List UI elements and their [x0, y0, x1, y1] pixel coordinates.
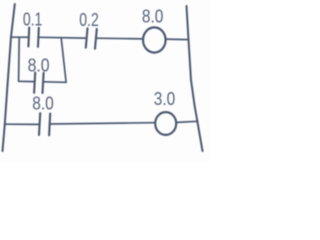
right power rail — [187, 6, 203, 151]
coil 8.0 (rung 1 output) — [143, 27, 166, 52]
wire rung1 rail to contact 0.1 — [11, 36, 28, 38]
branch wire contact 8.0 to right connector — [44, 81, 66, 84]
svg-text:0.2: 0.2 — [79, 10, 99, 30]
contact 8.0 (rung 2) — [39, 113, 50, 135]
parallel contact 8.0 — [34, 73, 44, 94]
wire contact 0.2 to coil 8.0 — [97, 37, 142, 40]
branch right vertical connector — [61, 38, 66, 82]
svg-text:8.0: 8.0 — [28, 56, 50, 76]
coil 3.0 (rung 2 output) — [155, 112, 176, 135]
wire coil 8.0 to right rail — [166, 38, 188, 41]
contact 0.1 — [28, 28, 38, 47]
branch left vertical connector — [18, 37, 21, 81]
wire coil 3.0 to right rail — [177, 121, 198, 122]
left power rail — [3, 4, 15, 151]
svg-text:8.0: 8.0 — [142, 7, 164, 27]
wire contact 8.0 to coil 3.0 — [51, 123, 155, 124]
branch wire left to contact 8.0 — [19, 80, 34, 82]
svg-text:3.0: 3.0 — [154, 89, 176, 109]
wire rung2 rail to contact 8.0 — [5, 123, 38, 125]
contact 0.2 — [86, 28, 97, 48]
svg-text:8.0: 8.0 — [32, 94, 54, 114]
wire between contact 0.1 and contact 0.2 — [40, 36, 86, 39]
svg-text:0.1: 0.1 — [23, 10, 43, 30]
